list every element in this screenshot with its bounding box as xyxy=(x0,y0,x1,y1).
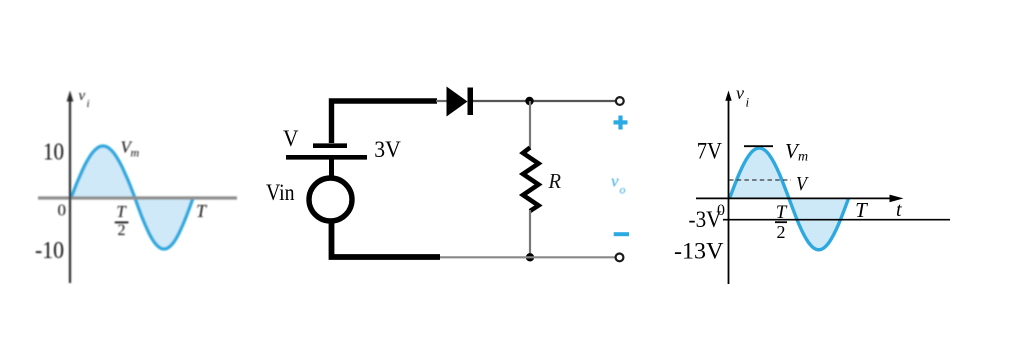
wire: resistor bottom lead xyxy=(529,210,531,257)
svg-text:2: 2 xyxy=(777,222,786,242)
svg-text:V: V xyxy=(796,173,810,195)
svg-text:-13V: -13V xyxy=(674,239,724,264)
diode D1 anode thin lead xyxy=(436,100,447,102)
svg-text:v: v xyxy=(736,83,744,103)
t axis arrowhead xyxy=(890,195,904,203)
svg-text:3V: 3V xyxy=(374,137,401,162)
svg-text:-3V: -3V xyxy=(689,207,722,232)
-3V level line xyxy=(723,219,950,221)
vertical vi axis xyxy=(728,95,730,284)
wire: resistor top lead xyxy=(529,101,531,148)
wire: source down + bottom thick wire xyxy=(332,220,441,257)
svg-text:Vin: Vin xyxy=(266,180,295,205)
svg-text:7V: 7V xyxy=(697,139,723,164)
svg-text:V: V xyxy=(283,126,299,151)
wire: top thick wire + drop to battery xyxy=(332,101,438,143)
svg-text:0: 0 xyxy=(58,201,67,220)
sine wave vin (filled) xyxy=(71,146,193,249)
source Vin (circle) xyxy=(309,178,352,221)
plus sign (output polarity) xyxy=(614,120,628,124)
battery V top plate (short) xyxy=(313,143,347,148)
svg-text:v: v xyxy=(611,172,619,191)
horizontal time axis (gray) xyxy=(38,196,237,199)
svg-text:T: T xyxy=(855,198,868,222)
svg-text:-10: -10 xyxy=(35,238,64,264)
svg-text:i: i xyxy=(746,95,750,110)
terminal top-right (open circle) xyxy=(616,97,624,105)
dashed level line V xyxy=(729,179,791,181)
t axis xyxy=(696,197,895,199)
svg-text:m: m xyxy=(798,150,808,165)
minus sign (output polarity) xyxy=(614,232,629,236)
svg-text:i: i xyxy=(87,98,90,110)
axis arrowhead up xyxy=(725,91,731,101)
svg-text:T: T xyxy=(116,202,127,221)
svg-text:t: t xyxy=(896,199,902,221)
node: top junction dot xyxy=(525,97,533,105)
node: bottom junction dot xyxy=(526,253,534,261)
svg-text:T: T xyxy=(776,202,788,223)
vertical vi axis xyxy=(69,96,71,283)
svg-text:10: 10 xyxy=(43,140,64,166)
battery V bottom plate (long) xyxy=(286,155,367,160)
resistor R zigzag xyxy=(523,148,539,212)
axis arrowhead (up) xyxy=(67,91,74,102)
label vo (output voltage, cyan) xyxy=(611,172,626,197)
diode D1 (triangle + cathode bar) xyxy=(447,87,468,117)
svg-text:2: 2 xyxy=(118,222,126,239)
svg-text:T: T xyxy=(196,201,208,221)
terminal bottom-right (open circle) xyxy=(616,254,624,262)
svg-text:R: R xyxy=(548,169,561,193)
svg-text:o: o xyxy=(620,183,626,197)
peak marker line at Vm xyxy=(744,145,773,147)
svg-text:v: v xyxy=(79,88,86,104)
output sine wave (filled) xyxy=(730,148,849,250)
wire: diode to top-right terminal (thin) xyxy=(473,100,615,102)
svg-text:m: m xyxy=(131,146,140,160)
wire: bottom thin to terminal xyxy=(440,256,616,258)
wire: battery to source xyxy=(329,157,334,178)
